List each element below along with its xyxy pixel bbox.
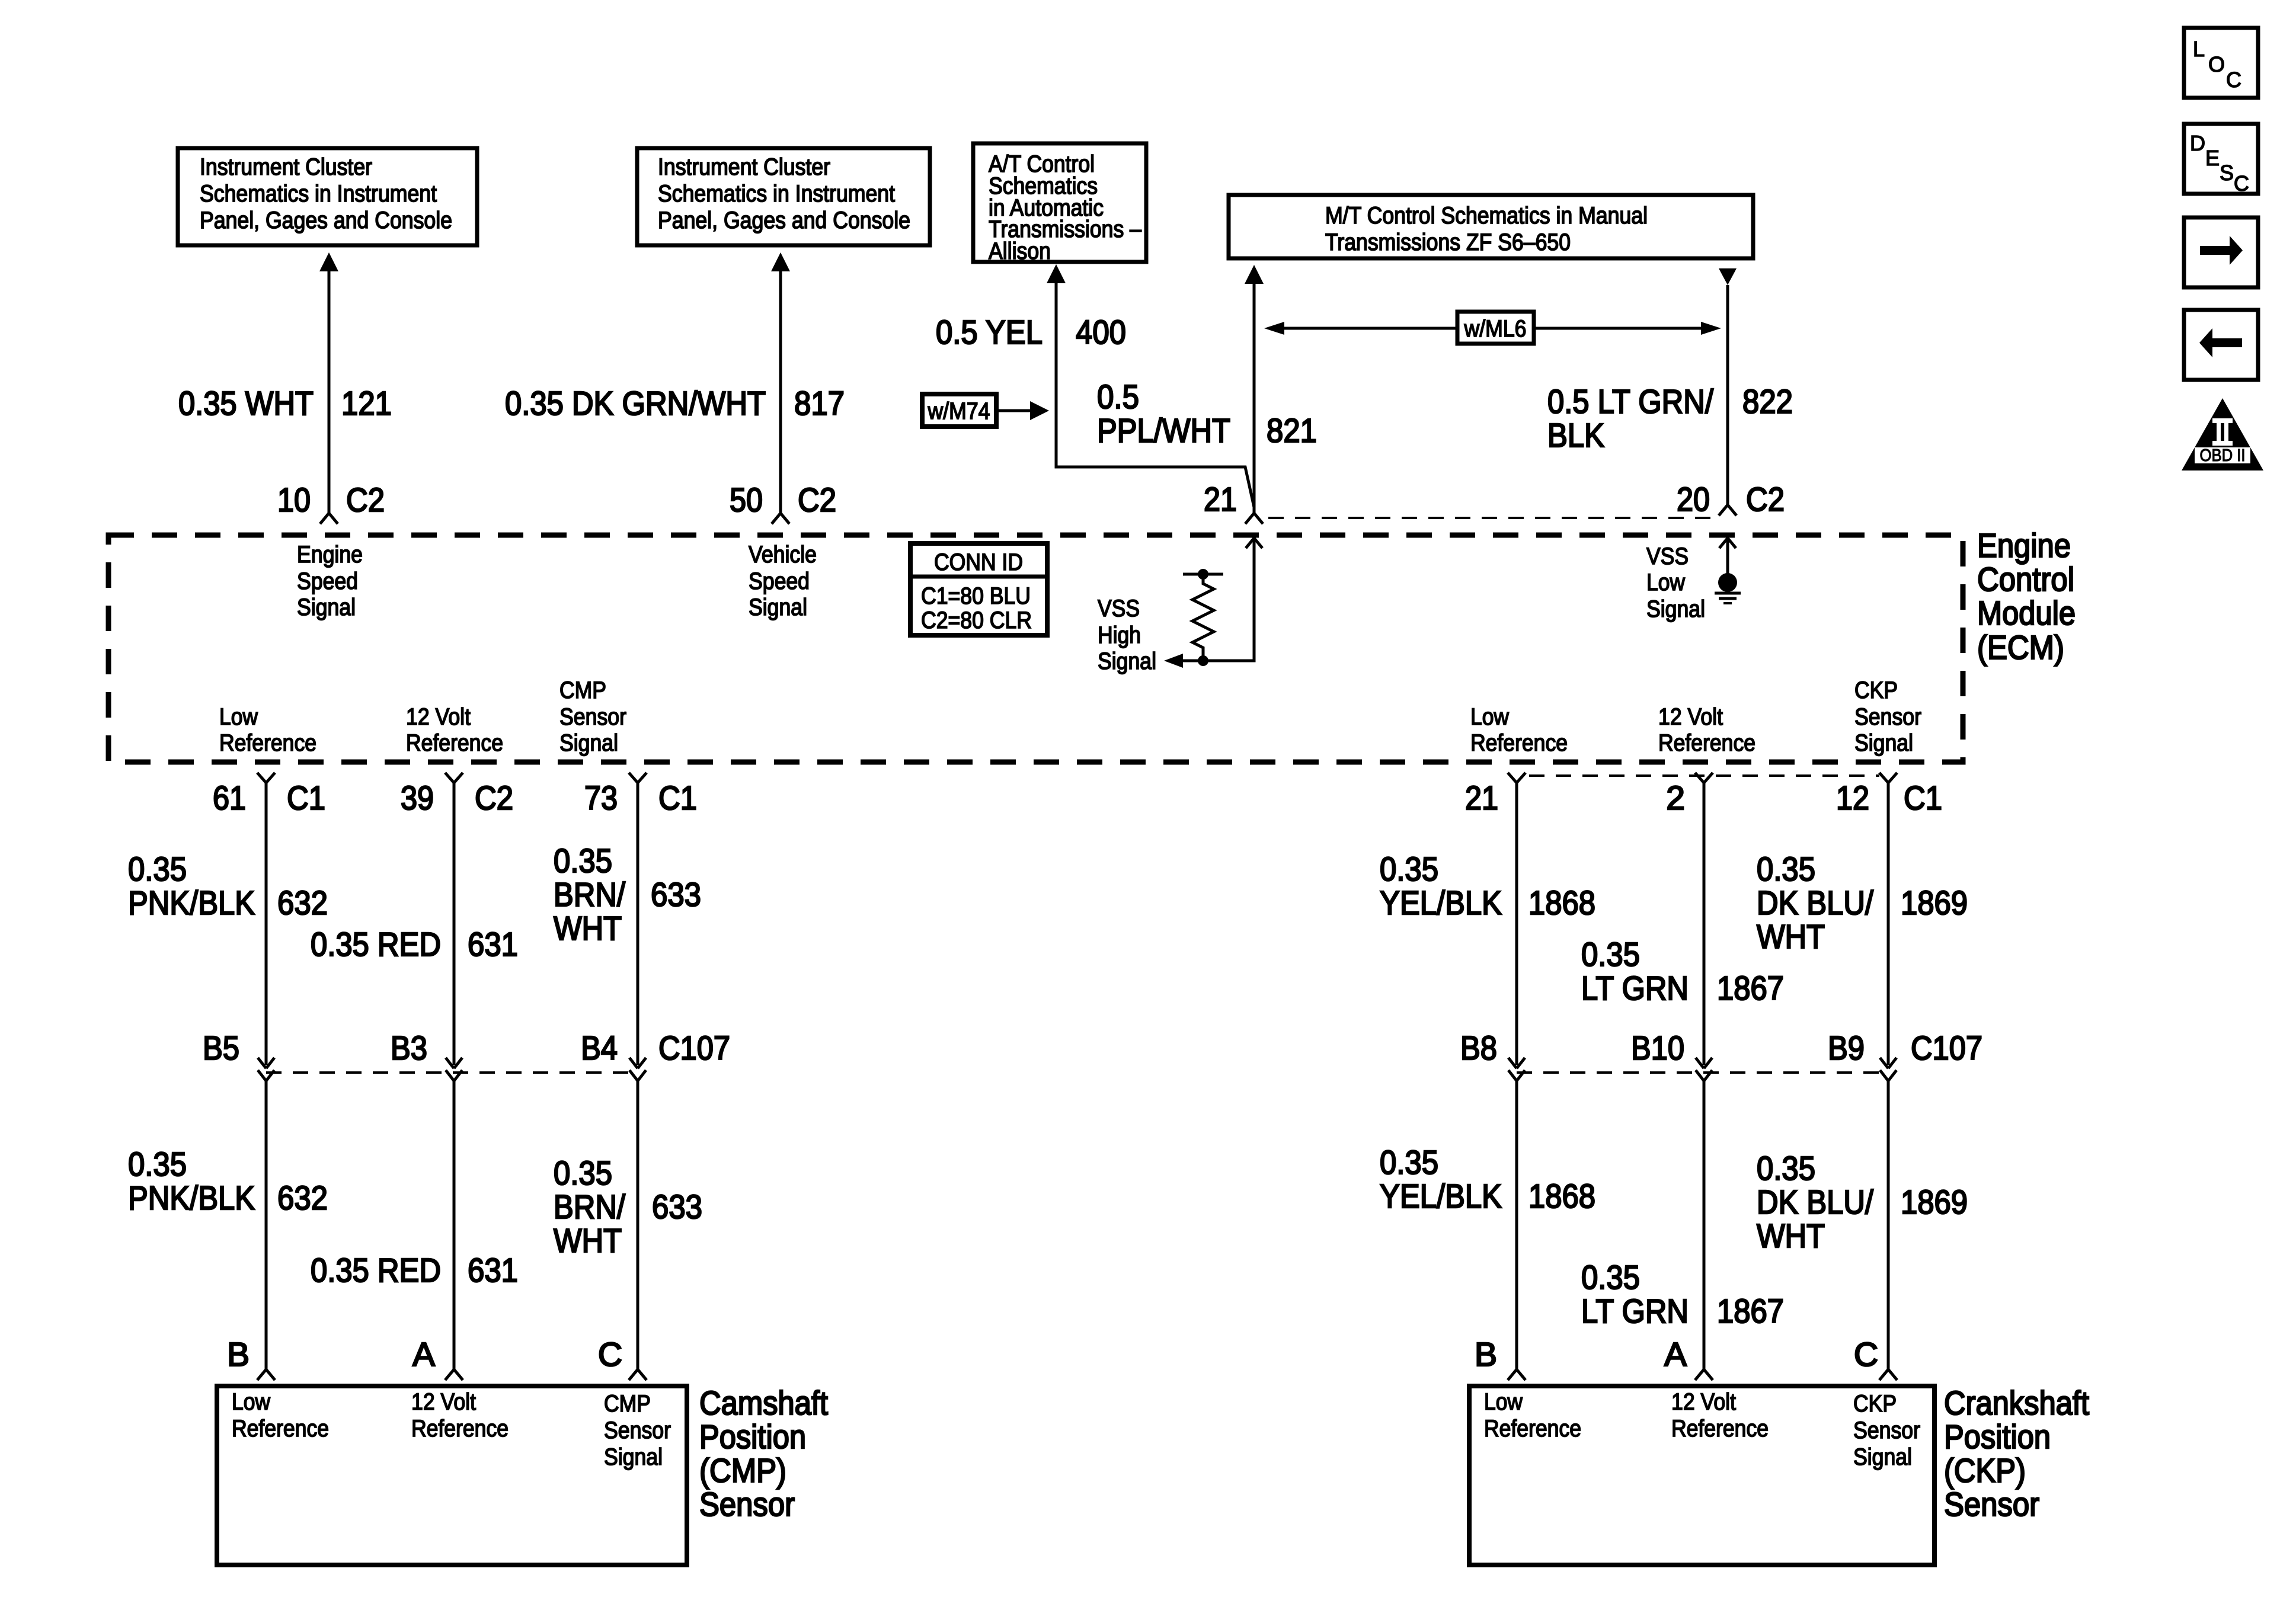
svg-text:Module: Module (1977, 594, 2076, 632)
pin B9 C107 (1828, 1029, 1982, 1067)
wire: engine speed signal ckt 121 to instrument cluster (319, 252, 338, 524)
svg-text:Low: Low (1470, 704, 1509, 730)
wire: CKP sensor signal ckt 1869 (0.35 DK BLU/WHT) (1879, 773, 1897, 1380)
svg-text:C: C (598, 1336, 622, 1374)
icon: DESC button (2184, 124, 2258, 196)
svg-text:73: 73 (584, 779, 618, 817)
connector C1 dashed tie (CKP pins) (1529, 774, 1879, 777)
connector C107 dashed (right) (1517, 1071, 1888, 1074)
svg-text:631: 631 (468, 926, 518, 964)
connector C107 dashed (left) (266, 1071, 638, 1074)
svg-text:Reference: Reference (1658, 730, 1755, 756)
svg-text:Signal: Signal (1854, 730, 1913, 756)
svg-text:C1: C1 (658, 779, 697, 817)
wire: VSS low signal ckt 822 (0.5 LT GRN/BLK) to M/T (1719, 268, 1737, 516)
ECM pin label: CKP Sensor Signal (1854, 677, 1921, 756)
label VSS High Signal (1098, 596, 1156, 674)
pin 39 C2 (401, 779, 513, 817)
svg-text:B: B (227, 1336, 250, 1374)
label 0.35 PNK/BLK 632 (upper) (128, 850, 328, 922)
svg-text:21: 21 (1204, 481, 1237, 518)
svg-text:0.35: 0.35 (1380, 1144, 1438, 1182)
svg-text:WHT: WHT (1757, 1217, 1825, 1255)
svg-text:CONN ID: CONN ID (934, 549, 1023, 575)
svg-text:Crankshaft: Crankshaft (1944, 1384, 2089, 1422)
svg-text:(CMP): (CMP) (699, 1452, 786, 1490)
svg-text:Allison: Allison (989, 238, 1051, 264)
pin 10 C2 (277, 481, 385, 519)
svg-text:PPL/WHT: PPL/WHT (1097, 412, 1230, 450)
svg-text:w/M74: w/M74 (928, 398, 990, 424)
svg-text:B3: B3 (391, 1029, 427, 1067)
svg-text:(ECM): (ECM) (1977, 629, 2064, 667)
svg-text:L: L (2193, 37, 2205, 61)
svg-text:Schematics in Instrument: Schematics in Instrument (658, 181, 895, 207)
svg-text:Sensor: Sensor (1944, 1486, 2039, 1523)
svg-text:WHT: WHT (554, 1222, 622, 1260)
svg-text:0.35: 0.35 (554, 842, 612, 880)
svg-text:Reference: Reference (406, 730, 503, 756)
box: A/T Control Schematics (973, 143, 1146, 264)
svg-text:0.35 RED: 0.35 RED (311, 1251, 441, 1289)
svg-text:1867: 1867 (1717, 969, 1784, 1007)
svg-text:0.35: 0.35 (128, 850, 187, 888)
svg-text:633: 633 (651, 876, 701, 914)
svg-text:B8: B8 (1460, 1029, 1497, 1067)
svg-text:Camshaft: Camshaft (699, 1384, 828, 1422)
svg-text:B5: B5 (203, 1029, 239, 1067)
svg-text:0.35: 0.35 (554, 1154, 612, 1192)
box: Crankshaft Position (CKP) Sensor (1469, 1386, 1934, 1565)
svg-text:LT GRN: LT GRN (1581, 1292, 1689, 1330)
box: M/T Control Schematics (1229, 195, 1753, 258)
svg-text:Engine: Engine (1977, 527, 2071, 565)
svg-text:C2: C2 (1746, 481, 1785, 518)
wire: vehicle speed signal ckt 817 to instrument cluster (771, 252, 790, 524)
svg-text:2: 2 (1666, 779, 1685, 817)
label 0.35 PNK/BLK 632 (lower) (128, 1145, 328, 1217)
svg-text:C2: C2 (798, 481, 836, 519)
pin 20 C2 (1677, 481, 1785, 518)
svg-text:822: 822 (1742, 383, 1793, 421)
svg-text:BRN/: BRN/ (554, 1188, 625, 1226)
svg-text:CMP: CMP (604, 1391, 651, 1417)
svg-text:B4: B4 (581, 1029, 618, 1067)
label 0.35 BRN/WHT 633 (upper) (554, 842, 701, 948)
svg-text:BRN/: BRN/ (554, 876, 625, 914)
svg-text:A: A (412, 1336, 435, 1374)
svg-text:Speed: Speed (297, 568, 358, 594)
svg-text:(CKP): (CKP) (1944, 1452, 2026, 1490)
svg-text:Control: Control (1977, 561, 2074, 598)
svg-text:VSS: VSS (1646, 543, 1689, 569)
svg-text:0.35: 0.35 (1581, 1259, 1640, 1297)
label 0.35 BRN/WHT 633 (lower) (554, 1154, 702, 1260)
svg-text:PNK/BLK: PNK/BLK (128, 1179, 255, 1217)
svg-text:C107: C107 (658, 1029, 730, 1067)
svg-text:C: C (2226, 68, 2241, 92)
svg-text:Reference: Reference (1470, 730, 1568, 756)
svg-text:C2=80 CLR: C2=80 CLR (921, 607, 1032, 633)
label 0.35 LT GRN 1867 (upper) (1581, 936, 1784, 1007)
svg-text:Speed: Speed (749, 568, 810, 594)
label 0.35 RED 631 (upper) (311, 926, 518, 964)
svg-text:0.35: 0.35 (1757, 1150, 1815, 1188)
svg-text:S: S (2220, 161, 2234, 185)
svg-text:Engine: Engine (297, 542, 363, 568)
svg-text:20: 20 (1677, 481, 1710, 518)
label 0.35 YEL/BLK 1868 (upper) (1380, 850, 1595, 922)
svg-text:Signal: Signal (559, 730, 618, 756)
svg-text:B: B (1475, 1336, 1497, 1374)
svg-text:1868: 1868 (1528, 1177, 1595, 1215)
svg-text:0.5 LT GRN/: 0.5 LT GRN/ (1547, 383, 1713, 421)
icon: LOC button (2184, 28, 2258, 98)
svg-text:1868: 1868 (1528, 884, 1595, 922)
wire: CKP low reference ckt 1868 (0.35 YEL/BLK) (1508, 773, 1526, 1380)
svg-text:B10: B10 (1631, 1029, 1684, 1067)
pin 61 C1 (213, 779, 325, 817)
svg-text:121: 121 (341, 385, 392, 422)
svg-text:Panel, Gages and Console: Panel, Gages and Console (658, 207, 910, 233)
svg-text:A: A (1664, 1336, 1687, 1374)
svg-text:0.35: 0.35 (1757, 850, 1815, 888)
svg-text:Position: Position (1944, 1418, 2051, 1456)
svg-text:Sensor: Sensor (604, 1417, 671, 1443)
svg-text:0.35 DK GRN/WHT: 0.35 DK GRN/WHT (505, 385, 766, 422)
svg-text:C: C (1854, 1336, 1878, 1374)
w/ML6 double arrow (1264, 312, 1721, 344)
label 0.35 WHT 121 (178, 385, 392, 422)
svg-text:12: 12 (1836, 779, 1869, 817)
ECM pin label: 12 Volt Reference (CMP) (406, 704, 503, 756)
svg-text:CKP: CKP (1854, 677, 1898, 703)
svg-text:DK BLU/: DK BLU/ (1757, 1183, 1873, 1221)
ECM pin label: 12 Volt Reference (CKP) (1658, 704, 1755, 756)
svg-text:0.35 WHT: 0.35 WHT (178, 385, 314, 422)
svg-text:21: 21 (1465, 779, 1498, 817)
svg-text:39: 39 (401, 779, 434, 817)
svg-text:Signal: Signal (297, 594, 356, 620)
resistor (VSS termination) (1183, 569, 1223, 666)
ECM pin label: Low Reference (CKP) (1470, 704, 1568, 756)
svg-text:0.35: 0.35 (128, 1145, 187, 1183)
svg-text:10: 10 (277, 481, 311, 519)
w/M74 tag (922, 394, 1049, 427)
svg-text:817: 817 (794, 385, 845, 422)
CONN ID table (910, 543, 1047, 635)
svg-text:Transmissions ZF S6–650: Transmissions ZF S6–650 (1325, 229, 1571, 255)
svg-text:Signal: Signal (1098, 648, 1156, 674)
svg-text:Reference: Reference (1484, 1416, 1581, 1442)
svg-text:Reference: Reference (1671, 1416, 1769, 1442)
svg-text:12 Volt: 12 Volt (406, 704, 471, 730)
svg-text:12 Volt: 12 Volt (1671, 1389, 1736, 1415)
label 0.5 YEL 400 (936, 313, 1126, 351)
svg-text:PNK/BLK: PNK/BLK (128, 884, 255, 922)
svg-text:Vehicle: Vehicle (749, 542, 817, 568)
pin 12 C1 (1836, 779, 1942, 817)
svg-text:1869: 1869 (1901, 1183, 1968, 1221)
wire: CMP 12V reference ckt 631 (0.35 RED) (445, 773, 463, 1380)
svg-text:Signal: Signal (749, 594, 807, 620)
svg-text:High: High (1098, 622, 1141, 648)
svg-text:WHT: WHT (1757, 918, 1825, 956)
svg-text:821: 821 (1267, 412, 1317, 450)
svg-text:Reference: Reference (232, 1416, 329, 1442)
svg-text:WHT: WHT (554, 910, 622, 948)
svg-text:400: 400 (1076, 313, 1126, 351)
svg-text:0.5 YEL: 0.5 YEL (936, 313, 1043, 351)
svg-text:BLK: BLK (1547, 417, 1604, 454)
label 0.35 DK BLU/WHT 1869 (upper) (1757, 850, 1968, 956)
svg-text:Reference: Reference (411, 1416, 509, 1442)
svg-text:YEL/BLK: YEL/BLK (1380, 1177, 1502, 1215)
pin B4 C107 (581, 1029, 730, 1067)
ground (1715, 573, 1741, 603)
label VSS Low Signal (1646, 543, 1705, 622)
wire: CMP low reference ckt 632 (0.35 PNK/BLK) (257, 773, 275, 1380)
label 0.35 LT GRN 1867 (lower) (1581, 1259, 1784, 1330)
svg-text:Sensor: Sensor (559, 704, 626, 730)
svg-text:VSS: VSS (1098, 596, 1140, 622)
svg-text:Panel, Gages and Console: Panel, Gages and Console (200, 207, 452, 233)
svg-text:12 Volt: 12 Volt (1658, 704, 1723, 730)
label Camshaft Position (CMP) Sensor (699, 1384, 828, 1523)
box: Instrument Cluster Schematics (second) (637, 148, 930, 245)
pin 73 C1 (584, 779, 697, 817)
svg-text:M/T Control Schematics in Manu: M/T Control Schematics in Manual (1325, 203, 1648, 229)
svg-text:w/ML6: w/ML6 (1464, 316, 1527, 342)
svg-text:632: 632 (277, 884, 328, 922)
svg-text:631: 631 (468, 1251, 518, 1289)
svg-text:632: 632 (277, 1179, 328, 1217)
icon: forward arrow button (2184, 217, 2258, 287)
svg-text:C2: C2 (346, 481, 385, 519)
svg-text:0.5: 0.5 (1097, 378, 1139, 416)
svg-text:B9: B9 (1828, 1029, 1865, 1067)
svg-text:Signal: Signal (604, 1444, 663, 1470)
pin 50 C2 (730, 481, 836, 519)
svg-text:CMP: CMP (559, 677, 606, 703)
svg-text:Instrument Cluster: Instrument Cluster (658, 154, 830, 180)
svg-text:Low: Low (1484, 1389, 1523, 1415)
svg-text:Sensor: Sensor (699, 1486, 795, 1523)
svg-text:YEL/BLK: YEL/BLK (1380, 884, 1502, 922)
svg-text:E: E (2205, 146, 2220, 170)
svg-text:C1: C1 (287, 779, 325, 817)
svg-text:0.35: 0.35 (1380, 850, 1438, 888)
label Crankshaft Position (CKP) Sensor (1944, 1384, 2089, 1523)
svg-text:Position: Position (699, 1418, 806, 1456)
svg-text:C1: C1 (1904, 779, 1942, 817)
svg-text:Reference: Reference (219, 730, 316, 756)
svg-text:D: D (2190, 131, 2205, 155)
box: Instrument Cluster Schematics (left) (178, 148, 477, 245)
svg-text:Signal: Signal (1646, 596, 1705, 622)
svg-text:61: 61 (213, 779, 246, 817)
connector C2 dashed tie pins 21-20 (1268, 517, 1716, 519)
label 0.5 PPL/WHT 821 (1097, 378, 1317, 450)
VSS high internal wire (1164, 538, 1262, 668)
svg-text:12 Volt: 12 Volt (411, 1389, 476, 1415)
ECM pin label: Engine Speed Signal (297, 542, 363, 620)
svg-text:C: C (2234, 171, 2249, 196)
wire: CMP sensor signal ckt 633 (0.35 BRN/WHT) (629, 773, 647, 1380)
label 0.35 YEL/BLK 1868 (lower) (1380, 1144, 1595, 1215)
svg-text:Sensor: Sensor (1853, 1417, 1920, 1443)
label 0.35 DK GRN/WHT 817 (505, 385, 845, 422)
icon: OBD II triangle (2182, 398, 2263, 470)
wire: A/T VSS ckt 400 (0.5 YEL) (1047, 264, 1254, 507)
label 0.5 LT GRN/ BLK 822 (1547, 383, 1793, 454)
svg-text:Low: Low (1646, 569, 1685, 596)
VSS low internal wire (1719, 538, 1736, 575)
wire: CKP 12V reference ckt 1867 (0.35 LT GRN) (1695, 773, 1713, 1380)
svg-text:C107: C107 (1911, 1029, 1982, 1067)
ECM pin label: Vehicle Speed Signal (749, 542, 817, 620)
svg-text:C1=80 BLU: C1=80 BLU (921, 583, 1031, 609)
icon: back arrow button (2184, 310, 2258, 380)
svg-text:C2: C2 (475, 779, 513, 817)
wire: VSS high signal ckt 821 (0.5 PPL/WHT) to M/T (1245, 265, 1264, 524)
label 0.35 RED 631 (lower) (311, 1251, 518, 1289)
svg-text:Sensor: Sensor (1854, 704, 1921, 730)
svg-text:50: 50 (730, 481, 763, 519)
svg-text:CKP: CKP (1853, 1391, 1897, 1417)
ECM dashed box (108, 535, 1963, 762)
label 0.35 DK BLU/WHT 1869 (lower) (1757, 1150, 1968, 1255)
svg-text:1867: 1867 (1717, 1292, 1784, 1330)
label Engine Control Module (ECM) (1977, 527, 2076, 667)
box: Camshaft Position (CMP) Sensor (217, 1386, 687, 1565)
svg-text:O: O (2208, 52, 2225, 76)
svg-text:OBD II: OBD II (2200, 446, 2246, 465)
svg-text:1869: 1869 (1901, 884, 1968, 922)
svg-text:0.35 RED: 0.35 RED (311, 926, 441, 964)
ECM pin label: CMP Sensor Signal (559, 677, 626, 756)
svg-text:Signal: Signal (1853, 1444, 1912, 1470)
svg-text:LT GRN: LT GRN (1581, 969, 1689, 1007)
svg-text:Low: Low (219, 704, 258, 730)
svg-text:Low: Low (232, 1389, 270, 1415)
svg-text:DK BLU/: DK BLU/ (1757, 884, 1873, 922)
ECM pin label: Low Reference (CMP) (219, 704, 316, 756)
svg-text:Schematics in Instrument: Schematics in Instrument (200, 181, 437, 207)
svg-text:Instrument Cluster: Instrument Cluster (200, 154, 372, 180)
svg-text:0.35: 0.35 (1581, 936, 1640, 974)
svg-text:633: 633 (652, 1188, 702, 1226)
